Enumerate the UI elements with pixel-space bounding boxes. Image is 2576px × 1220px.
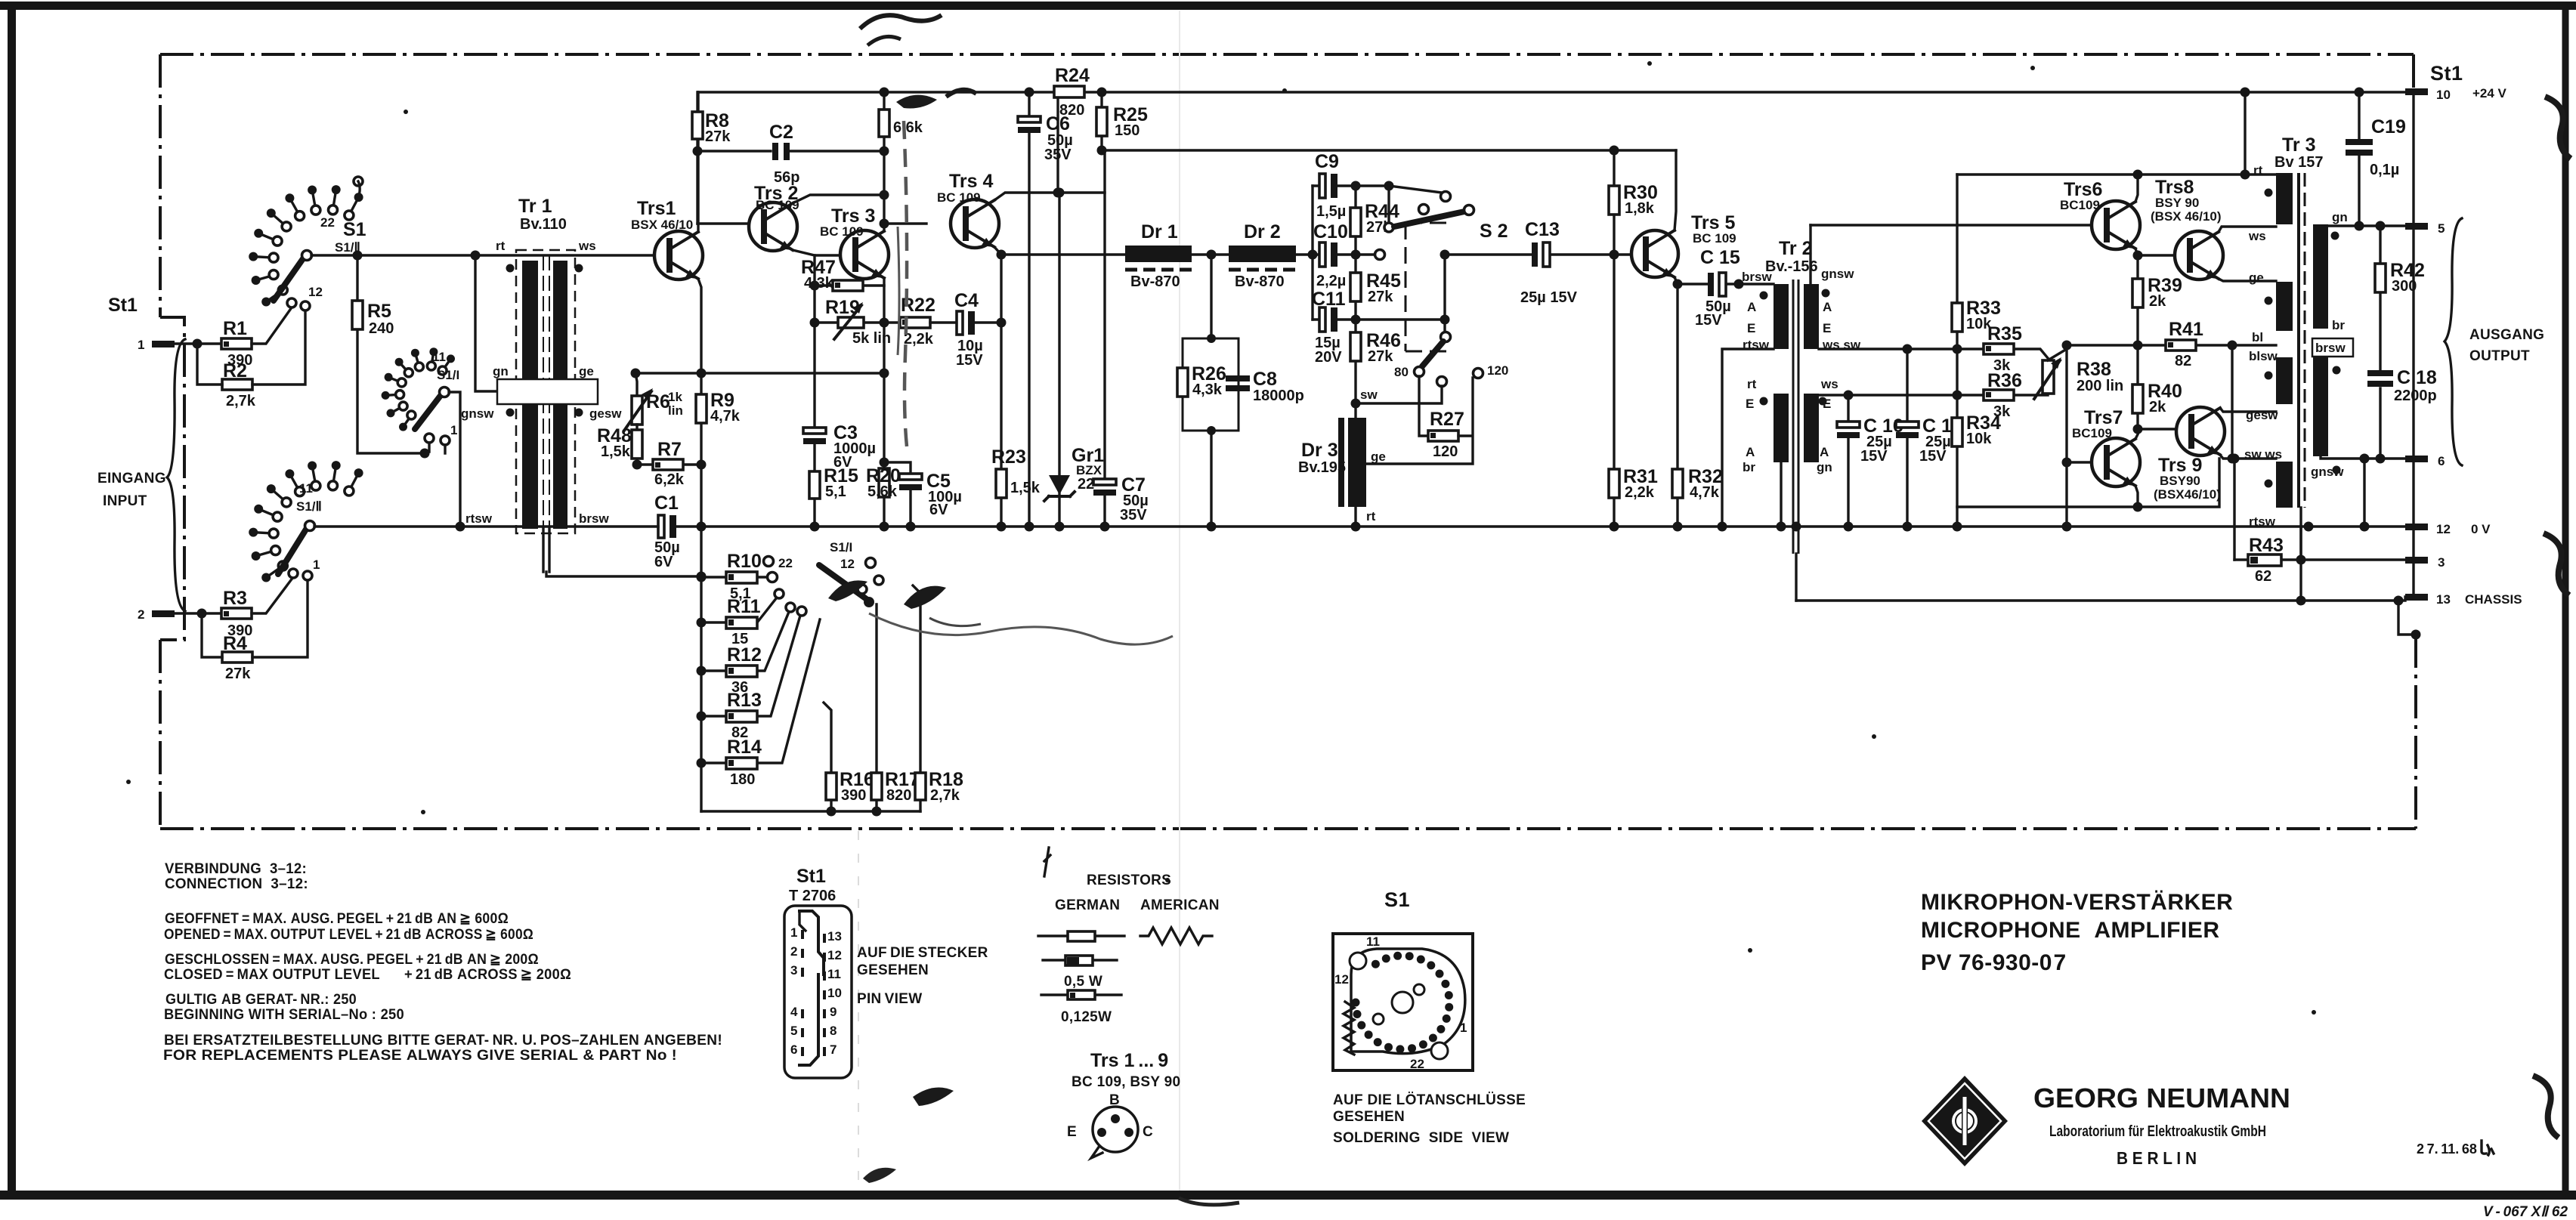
wire R1 right to switch contact 12	[252, 307, 292, 344]
svg-text:12: 12	[1334, 972, 1349, 987]
junction R8 C2	[693, 147, 703, 156]
transformer Tr3 primary bar 2	[2276, 282, 2293, 331]
svg-text:(BSX 46/10): (BSX 46/10)	[2151, 209, 2222, 224]
svg-text:AUF DIE STECKER: AUF DIE STECKER	[857, 945, 988, 961]
wire top primary rt-ws y338	[311, 254, 654, 256]
svg-text:gn: gn	[493, 364, 509, 378]
choke Dr1	[1125, 246, 1192, 262]
svg-text:180: 180	[730, 771, 755, 788]
transformer Tr1 dashed box	[516, 250, 575, 533]
wire pin2 to R3 node	[175, 612, 221, 614]
rotary switch S1/II lower wafer arc	[249, 461, 363, 582]
connector St1 T2706 body	[784, 906, 852, 1078]
svg-text:150: 150	[1115, 122, 1140, 139]
wire Trs2 collector	[793, 195, 884, 203]
input brace EINGANG	[167, 339, 185, 611]
wire Tr2 wssw y462	[1819, 347, 1957, 350]
rotary switch S1 upper wafer arc	[249, 185, 363, 306]
S1/I lower extra contacts	[858, 585, 867, 594]
svg-text:R43: R43	[2249, 535, 2284, 556]
transformer Tr3 secondary bar top	[2313, 224, 2328, 329]
transformer Tr3 core	[2297, 173, 2300, 508]
svg-text:5: 5	[790, 1024, 797, 1038]
chassis wire y795	[1796, 597, 2405, 601]
potentiometer R38	[2043, 360, 2054, 394]
svg-text:BC 109: BC 109	[1693, 231, 1736, 246]
svg-text:MIKROPHON-VERSTÄRKER: MIKROPHON-VERSTÄRKER	[1921, 890, 2233, 915]
rail y199	[1102, 149, 1676, 151]
junction Trs2 collector	[880, 190, 889, 200]
resistor R12	[701, 612, 789, 671]
svg-text:Tr 1: Tr 1	[518, 196, 552, 217]
wire Tr2 rtsw to 0V	[1722, 349, 1774, 527]
svg-text:R23: R23	[991, 446, 1026, 468]
svg-text:15V: 15V	[1919, 448, 1947, 465]
svg-text:R38: R38	[2077, 359, 2111, 380]
pin 12	[2405, 524, 2428, 530]
scan artifact vertical streak at fold	[904, 121, 908, 453]
svg-text:Dr 1: Dr 1	[1141, 221, 1178, 242]
svg-text:390: 390	[841, 787, 866, 804]
scan artifact connector curl	[913, 1088, 954, 1107]
resistor R32	[1676, 284, 1678, 527]
S1 upper contacts to R1 R2	[287, 298, 296, 307]
wire Trs1 emitter branch	[698, 279, 701, 524]
S2 upper stationary contact	[1441, 192, 1451, 202]
transformer Tr1 tap window	[497, 379, 598, 404]
svg-text:Trs8: Trs8	[2155, 177, 2194, 198]
svg-text:GESCHLOSSEN = MAX. AUSG. PEGEL: GESCHLOSSEN = MAX. AUSG. PEGEL + 21 dB A…	[165, 952, 539, 968]
svg-text:Bv-870: Bv-870	[1130, 273, 1180, 290]
vertical x2954	[2231, 345, 2233, 459]
svg-text:15V: 15V	[956, 352, 983, 369]
svg-text:0,125W: 0,125W	[1061, 1009, 1112, 1025]
resistor R14	[701, 619, 820, 763]
svg-text:10: 10	[2436, 88, 2451, 102]
svg-text:GESEHEN: GESEHEN	[857, 962, 929, 978]
0V rail brsw wire left section	[314, 525, 2407, 527]
capacitor C10	[1337, 253, 1356, 255]
svg-text:C6: C6	[1046, 113, 1070, 134]
transistor Trs3	[840, 230, 889, 279]
resistor R40	[2136, 345, 2138, 429]
Tr2 polarity dots	[1760, 292, 1768, 300]
outer page border left	[8, 2, 16, 1200]
scan artifact top crease smudge	[860, 15, 942, 29]
wire R27 right to 120 contact and ge tap	[1366, 378, 1473, 464]
S1/I common contact	[440, 388, 450, 397]
scan artifact S1/I smudges	[828, 580, 867, 601]
resistor R20	[879, 468, 889, 497]
wire Trs5 collector	[1675, 150, 1676, 230]
svg-text:PV 76-930-07: PV 76-930-07	[1921, 950, 2067, 975]
rail +24V y122	[698, 91, 2414, 93]
svg-text:2,2µ: 2,2µ	[1316, 273, 1346, 289]
svg-text:A: A	[1746, 445, 1755, 459]
junction C16 top	[1844, 391, 1854, 400]
resistor R21 6,6k	[879, 110, 889, 137]
ladder vertical x928	[700, 527, 702, 811]
wire Trs7 collector	[2135, 434, 2138, 439]
wire y457 bl	[2067, 344, 2276, 346]
capacitor C9 column vertical left	[1311, 186, 1313, 320]
capacitor C2	[772, 143, 778, 160]
svg-text:15V: 15V	[1860, 448, 1888, 465]
capacitor C19	[2358, 92, 2360, 226]
svg-text:A: A	[1747, 300, 1756, 314]
transformer Tr3 primary bar 3	[2276, 357, 2293, 404]
wire top S2 row y246	[1356, 186, 1442, 193]
svg-text:MICROPHONE AMPLIFIER: MICROPHONE AMPLIFIER	[1921, 918, 2220, 943]
wire Tr2 gnsw riser	[1809, 225, 1811, 284]
wire Trs8 collector to ws	[2219, 227, 2276, 232]
scan artifact bottom crease	[863, 1168, 896, 1183]
wire Trs6 emitter to Trs8 base	[2135, 249, 2175, 255]
junction node gn riser top	[471, 251, 481, 261]
resistor R48	[635, 425, 638, 465]
resistor R44	[1354, 186, 1356, 255]
svg-text:1: 1	[138, 338, 144, 352]
wire rtsw link 3-12	[2299, 527, 2302, 601]
svg-text:(BSX46/10): (BSX46/10)	[2154, 487, 2221, 502]
svg-text:R36: R36	[1987, 370, 2022, 391]
svg-text:S1/I: S1/I	[437, 368, 459, 382]
svg-text:820: 820	[886, 787, 911, 804]
svg-text:PIN VIEW: PIN VIEW	[857, 991, 922, 1007]
svg-text:Laboratorium für Elektroakusti: Laboratorium für Elektroakustik GmbH	[2049, 1123, 2266, 1140]
transformer Tr1 core lines	[543, 255, 549, 533]
junction R6 top	[631, 369, 641, 378]
S1 upper common contact	[302, 251, 312, 261]
St1 pin 1	[152, 341, 175, 347]
svg-text:RESISTORS: RESISTORS	[1087, 873, 1171, 888]
svg-text:V - 067 XⅡ 62: V - 067 XⅡ 62	[2483, 1204, 2568, 1220]
transistor Trs8	[2175, 231, 2223, 280]
svg-text:AUF DIE LÖTANSCHLÜSSE: AUF DIE LÖTANSCHLÜSSE	[1333, 1092, 1526, 1108]
svg-text:1,5µ: 1,5µ	[1316, 203, 1346, 220]
svg-text:ws: ws	[1820, 377, 1838, 391]
R26 C8 box wire top	[1210, 255, 1212, 527]
resistor R22	[900, 317, 930, 328]
scan artifact smudge near R21	[896, 95, 937, 109]
svg-text:13: 13	[827, 929, 842, 944]
svg-text:S1/I: S1/I	[830, 540, 852, 554]
resistor R10	[701, 576, 767, 578]
resistor R16	[824, 703, 831, 811]
wire gn riser	[475, 255, 500, 391]
svg-text:1,5k: 1,5k	[1010, 480, 1041, 496]
svg-text:9: 9	[830, 1005, 837, 1019]
switch arm S2 upper	[1387, 186, 1390, 224]
svg-text:BC 109: BC 109	[756, 198, 799, 212]
svg-text:gesw: gesw	[2246, 408, 2278, 422]
svg-text:FOR REPLACEMENTS PLEASE ALWAYS: FOR REPLACEMENTS PLEASE ALWAYS GIVE SERI…	[163, 1048, 677, 1064]
resistor R5	[357, 255, 420, 453]
transistor Trs4	[951, 199, 999, 248]
svg-text:Trs 9: Trs 9	[2158, 455, 2202, 476]
svg-text:R19: R19	[825, 297, 860, 318]
svg-text:22: 22	[778, 556, 793, 570]
vertical x2590 R33 R34	[1956, 175, 1958, 527]
svg-text:Bv.110: Bv.110	[520, 216, 567, 233]
svg-text:2,7k: 2,7k	[930, 787, 960, 804]
svg-text:8: 8	[830, 1024, 837, 1038]
svg-text:3: 3	[790, 963, 797, 978]
svg-text:R1: R1	[223, 318, 247, 339]
contact 22 with label	[764, 557, 774, 567]
capacitor C6	[1028, 92, 1030, 527]
St1 output connector line	[2412, 91, 2414, 597]
junction C2 right	[880, 147, 889, 156]
svg-text:C 18: C 18	[2397, 367, 2437, 388]
svg-text:82: 82	[2175, 353, 2191, 369]
svg-text:gnsw: gnsw	[461, 406, 494, 421]
choke Dr3	[1354, 403, 1356, 527]
zener diode Gr1	[1058, 193, 1060, 527]
wire Trs8 emitter to ge	[2219, 279, 2276, 281]
svg-text:27k: 27k	[1368, 289, 1393, 305]
svg-text:E: E	[1747, 321, 1755, 335]
svg-text:S1: S1	[343, 219, 366, 240]
svg-text:22: 22	[320, 215, 335, 230]
svg-text:AMERICAN: AMERICAN	[1140, 897, 1220, 913]
svg-text:6: 6	[2438, 454, 2445, 468]
svg-text:St1: St1	[2430, 62, 2463, 85]
pin 5	[2405, 223, 2428, 230]
transistor Trs2	[749, 202, 797, 251]
resistor R42	[2379, 226, 2381, 370]
svg-text:25µ 15V: 25µ 15V	[1520, 289, 1578, 306]
svg-text:St1: St1	[108, 295, 138, 316]
transformer Tr3 primary bar 1	[2276, 173, 2293, 224]
resistor R34	[1952, 418, 1962, 446]
svg-text:rt: rt	[1366, 509, 1376, 524]
resistor R4	[222, 652, 252, 663]
capacitor C11	[1313, 318, 1356, 320]
svg-text:Trs7: Trs7	[2084, 407, 2123, 428]
svg-text:BSX 46/10: BSX 46/10	[631, 218, 693, 232]
fold crease vertical	[1179, 11, 1180, 1191]
svg-text:R5: R5	[367, 301, 391, 322]
scan artifact right border curl middle	[2544, 533, 2569, 595]
pin 6	[2405, 456, 2428, 462]
S1 detail rotor plate	[1351, 949, 1465, 1054]
svg-text:C11: C11	[1312, 289, 1346, 310]
svg-text:AUSGANG: AUSGANG	[2469, 327, 2544, 343]
svg-text:E: E	[1746, 397, 1754, 411]
svg-text:br: br	[1743, 460, 1755, 474]
svg-text:1,5k: 1,5k	[601, 443, 631, 460]
wire pin1 to R1 node	[175, 342, 221, 344]
svg-text:22: 22	[1410, 1057, 1424, 1071]
wire pin5	[2328, 224, 2405, 227]
svg-text:C13: C13	[1525, 219, 1560, 240]
resistor R7	[653, 459, 683, 470]
svg-text:1: 1	[1460, 1021, 1467, 1035]
junction dots 0V rail left	[456, 522, 465, 532]
svg-text:R10: R10	[727, 551, 762, 572]
svg-text:Trs1: Trs1	[637, 198, 676, 219]
svg-text:Bv 157: Bv 157	[2274, 154, 2324, 171]
label brsw Tr3 in box	[2312, 338, 2353, 357]
wire Trs2 emitter to Trs3 base	[793, 250, 840, 255]
svg-text:BC 109: BC 109	[937, 190, 981, 205]
svg-text:Bv-870: Bv-870	[1235, 273, 1285, 290]
svg-text:brsw: brsw	[1742, 270, 1772, 284]
scan artifact right border curl top	[2545, 97, 2571, 159]
transistor Trs5	[1631, 230, 1678, 277]
wire Tr2 core to chassis	[1795, 554, 1797, 601]
svg-text:11: 11	[432, 350, 446, 364]
transformer Tr2 winding bar top-right	[1804, 284, 1819, 349]
svg-text:R7: R7	[657, 439, 682, 460]
svg-text:R14: R14	[727, 737, 762, 758]
resistor R39	[2136, 255, 2138, 345]
svg-text:C4: C4	[954, 290, 979, 311]
S1 upper arc top contact 22	[354, 177, 363, 186]
wire C10 row to contact	[1356, 253, 1375, 255]
svg-text:Tr 2: Tr 2	[1779, 238, 1812, 259]
legend american resistor	[1140, 928, 1212, 944]
svg-text:11: 11	[827, 967, 841, 981]
svg-text:R3: R3	[223, 588, 247, 609]
capacitor C8	[1226, 375, 1250, 381]
svg-text:BSY90: BSY90	[2160, 474, 2200, 488]
svg-text:3: 3	[2438, 555, 2445, 570]
svg-text:0 V: 0 V	[2471, 522, 2491, 536]
svg-text:18000p: 18000p	[1253, 388, 1304, 404]
svg-text:6: 6	[790, 1042, 797, 1057]
svg-text:rt: rt	[2253, 163, 2263, 178]
svg-text:Dr 3: Dr 3	[1301, 440, 1338, 461]
svg-text:200 lin: 200 lin	[2077, 378, 2123, 394]
legend german resistor	[1038, 934, 1124, 937]
svg-text:20V: 20V	[1315, 349, 1342, 366]
wire 80 contact down to R27	[1419, 376, 1428, 436]
resistor R9	[696, 394, 707, 423]
svg-text:A: A	[1823, 300, 1832, 314]
svg-text:120: 120	[1433, 443, 1458, 460]
ladder bottom wire	[701, 810, 920, 812]
svg-text:3k: 3k	[1993, 403, 2011, 420]
svg-text:2200p: 2200p	[2394, 388, 2437, 404]
svg-text:11: 11	[299, 481, 313, 496]
svg-text:2: 2	[138, 607, 144, 622]
resistor R15	[809, 471, 820, 499]
wire Trs5 emitter	[1675, 277, 1708, 284]
S1/I lower pivot dot	[864, 597, 874, 607]
S2 mid contact	[1375, 250, 1385, 260]
svg-text:R24: R24	[1055, 65, 1090, 86]
transformer Tr3 secondary bar bottom	[2313, 357, 2328, 456]
svg-text:brsw: brsw	[2315, 341, 2346, 355]
switch arm S1/II lower	[278, 528, 307, 574]
svg-text:BC109: BC109	[2060, 198, 2100, 212]
svg-text:27k: 27k	[225, 666, 251, 682]
svg-text:2,2k: 2,2k	[1625, 484, 1655, 501]
svg-text:+24 V: +24 V	[2472, 86, 2507, 100]
outer page border right	[2562, 2, 2569, 1191]
svg-text:13: 13	[2436, 592, 2451, 607]
wire pin6 to 0V link	[2363, 459, 2365, 527]
svg-text:10k: 10k	[1966, 431, 1992, 447]
transistor pinout circle	[1093, 1107, 1138, 1152]
wire pin3 R43	[2234, 558, 2405, 561]
resistor R7 wire	[637, 463, 701, 465]
switch arm S2 lower	[1422, 341, 1443, 366]
svg-text:4,7k: 4,7k	[710, 408, 741, 425]
speckles	[421, 810, 425, 814]
wire Trs7 base	[2067, 461, 2092, 463]
svg-text:300: 300	[2392, 278, 2417, 295]
capacitor C5	[899, 474, 922, 480]
capacitor C5 wire	[884, 462, 911, 527]
svg-text:BSY 90: BSY 90	[2155, 196, 2199, 210]
svg-text:SOLDERING SIDE VIEW: SOLDERING SIDE VIEW	[1333, 1130, 1509, 1146]
svg-text:R41: R41	[2169, 319, 2203, 340]
wire Trs1 collector riser	[697, 92, 699, 232]
S2 contact 120	[1474, 369, 1483, 378]
svg-text:rt: rt	[1747, 377, 1757, 391]
junction R47 left	[810, 281, 820, 291]
capacitor C2 wire	[697, 150, 884, 152]
transformer Tr2 core lines	[1793, 280, 1798, 554]
pin 10	[2405, 88, 2428, 95]
svg-text:T 2706: T 2706	[789, 888, 836, 904]
svg-text:120: 120	[1487, 363, 1508, 378]
svg-text:Trs6: Trs6	[2064, 179, 2102, 200]
svg-text:10: 10	[827, 986, 842, 1000]
svg-text:CHASSIS: CHASSIS	[2465, 592, 2522, 607]
wire x1400 rail drop	[1056, 92, 1059, 193]
svg-text:C 15: C 15	[1700, 247, 1740, 268]
svg-text:0,1µ: 0,1µ	[2370, 162, 2399, 178]
S1/II lower common contact	[305, 521, 315, 531]
resistor R41	[2166, 340, 2196, 351]
svg-text:C19: C19	[2371, 116, 2406, 137]
svg-text:C10: C10	[1313, 221, 1348, 242]
resistor R35	[1957, 349, 2048, 358]
resistor R47	[815, 284, 884, 286]
svg-text:brsw: brsw	[579, 511, 609, 526]
wire Dr2 to C10	[1296, 253, 1319, 255]
wire Trs7 emitter	[2135, 486, 2138, 507]
connector key top	[799, 911, 824, 974]
junction R20 top	[880, 458, 889, 468]
junction C11 row	[1351, 315, 1361, 325]
svg-text:62: 62	[2255, 568, 2271, 585]
vertical x2735	[2065, 345, 2067, 527]
svg-text:6V: 6V	[654, 554, 673, 570]
wire Trs4 base	[884, 222, 926, 224]
svg-text:EINGANG: EINGANG	[97, 471, 166, 486]
S1 detail dot ring	[1352, 952, 1454, 1054]
svg-text:OUTPUT: OUTPUT	[2469, 348, 2530, 364]
resistor R31	[1609, 469, 1619, 498]
svg-text:rtsw: rtsw	[2249, 514, 2276, 529]
svg-text:C8: C8	[1253, 369, 1277, 390]
resistor R26	[1177, 368, 1188, 397]
wire Trs2 base	[697, 222, 749, 224]
signal wire y337 Trs4 to Dr1	[1001, 253, 1125, 255]
svg-text:2: 2	[790, 944, 797, 959]
svg-text:BC 109: BC 109	[820, 224, 864, 239]
wire Trs9 base	[2138, 428, 2176, 430]
svg-text:CONNECTION 3–12:: CONNECTION 3–12:	[165, 876, 308, 892]
wire Trs9 collector to gesw	[2220, 408, 2276, 412]
svg-text:E: E	[1067, 1124, 1077, 1140]
junction Trs4 base tap	[880, 219, 889, 229]
